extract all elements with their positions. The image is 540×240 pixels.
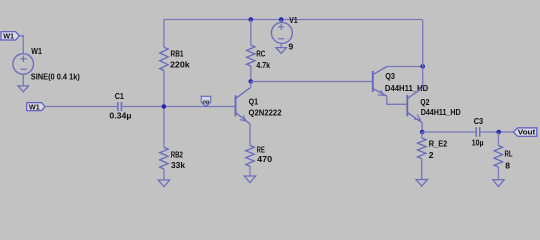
wire: emitter node to R_E2 xyxy=(421,132,423,138)
junction dot: Q1 collector node xyxy=(249,79,254,84)
svg-text:33k: 33k xyxy=(171,160,185,170)
svg-text:470: 470 xyxy=(257,154,272,164)
resistor RE xyxy=(246,146,254,167)
voltage source W1 xyxy=(13,54,34,75)
wire: output node to C3 xyxy=(422,131,476,133)
svg-text:SINE(0 0.4 1k): SINE(0 0.4 1k) xyxy=(31,72,80,82)
svg-text:RB1: RB1 xyxy=(171,49,184,59)
wire: source bottom to ground xyxy=(22,74,24,86)
svg-text:2: 2 xyxy=(429,150,434,160)
ground (under RL) xyxy=(493,180,504,187)
junction dot: input node at RB1/RB2 xyxy=(162,104,167,109)
wire: top supply rail xyxy=(164,19,423,21)
capacitor C3 xyxy=(476,127,480,137)
junction dot: RL top node xyxy=(496,130,501,135)
wire: Q3 collector to right rail xyxy=(387,66,423,68)
svg-text:W1: W1 xyxy=(31,46,42,56)
svg-text:W1: W1 xyxy=(29,102,40,111)
svg-text:R_E2: R_E2 xyxy=(429,139,448,149)
transistor Q1 xyxy=(236,87,251,124)
wire: Q1 emitter to RE xyxy=(249,124,251,146)
resistor RC xyxy=(247,45,255,66)
svg-text:4.7k: 4.7k xyxy=(256,60,270,70)
svg-text:C3: C3 xyxy=(474,116,484,126)
wire: RE bottom to ground xyxy=(249,166,251,176)
svg-text:V1: V1 xyxy=(289,15,297,25)
svg-text:Q2: Q2 xyxy=(420,97,429,107)
wire: Q1 collector node to Q3 base xyxy=(251,81,373,83)
ground (under R_E2) xyxy=(416,180,427,187)
svg-text:0.34µ: 0.34µ xyxy=(109,110,131,120)
wire: RC bottom to Q1 collector node xyxy=(250,66,252,82)
wire: right rail (top rail down to Q2 collector) xyxy=(422,20,424,88)
wire: Q3 emitter to Q2 base xyxy=(387,96,408,104)
junction dot: Q3 collector on rail xyxy=(420,64,425,69)
wire: left rail top (rail to RB1) xyxy=(163,20,165,48)
svg-text:C1: C1 xyxy=(115,91,124,101)
wire: R_E2 bottom to ground xyxy=(421,159,423,180)
svg-text:RL: RL xyxy=(505,148,513,158)
net flag op (on base wire) xyxy=(201,96,211,106)
wire: Q2 emitter stub to output node xyxy=(421,122,424,132)
wire: RB1 bottom through input node to RB2 xyxy=(163,71,165,148)
wire: W1 flag to C1 left plate xyxy=(45,106,118,108)
wire: RL top node down to RL xyxy=(497,132,499,146)
svg-text:W1: W1 xyxy=(3,31,14,40)
junction dot: RC top on rail xyxy=(249,17,254,22)
svg-text:Q1: Q1 xyxy=(249,97,259,107)
svg-text:D44H11_HD: D44H11_HD xyxy=(421,107,461,117)
svg-text:Q2N2222: Q2N2222 xyxy=(249,107,282,117)
wire: V1 bottom to ground xyxy=(280,43,282,47)
svg-text:Q3: Q3 xyxy=(385,71,395,81)
wire: rail to RC top xyxy=(250,20,252,46)
transistor Q3 xyxy=(373,67,387,97)
ground (under source W1) xyxy=(18,86,29,92)
capacitor C1 xyxy=(118,102,122,111)
svg-text:Vout: Vout xyxy=(518,128,536,137)
svg-text:RB2: RB2 xyxy=(171,149,183,159)
ground (under V1) xyxy=(276,48,287,54)
resistor RL xyxy=(494,146,502,168)
wire: rail to V1 top xyxy=(280,20,282,23)
wire: RB2 bottom to ground xyxy=(163,169,165,180)
svg-text:RE: RE xyxy=(257,144,265,154)
resistor RB2 xyxy=(160,147,168,169)
wire: C3 to Vout flag xyxy=(479,131,513,133)
transistor Q2 xyxy=(407,88,422,123)
ground (under RB2) xyxy=(158,180,169,187)
wire: Q1 collector stub xyxy=(250,82,252,88)
wire: C1 right plate to Q1 base xyxy=(121,106,235,108)
junction dot: Q2 emitter node xyxy=(420,130,425,135)
wire: W1 flag to source top xyxy=(19,36,23,54)
ground (under RE) xyxy=(244,176,255,183)
svg-text:220k: 220k xyxy=(170,60,190,70)
resistor RB1 xyxy=(160,47,168,70)
svg-text:8: 8 xyxy=(505,161,510,171)
svg-text:9: 9 xyxy=(289,41,294,51)
port flag W1 (input to amplifier) xyxy=(27,102,45,111)
port flag W1 (input label, top left) xyxy=(1,31,19,40)
port flag Vout xyxy=(513,128,536,137)
svg-text:10µ: 10µ xyxy=(472,137,484,147)
voltage source V1 xyxy=(271,22,292,43)
svg-text:RC: RC xyxy=(256,49,265,59)
svg-text:op: op xyxy=(203,100,210,106)
wire: RL bottom to ground xyxy=(497,167,499,180)
resistor R_E2 xyxy=(418,138,426,159)
junction dot: V1 top on rail xyxy=(279,17,284,22)
